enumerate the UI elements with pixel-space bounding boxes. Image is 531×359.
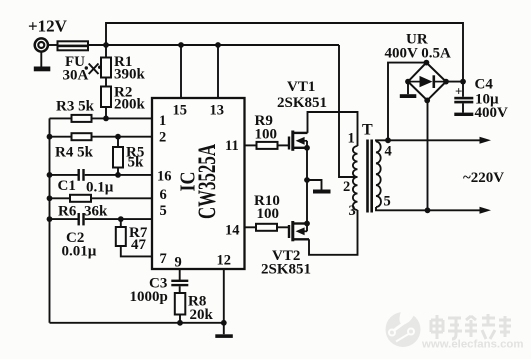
svg-text:2: 2 bbox=[343, 179, 350, 195]
svg-text:11: 11 bbox=[225, 138, 239, 154]
svg-text:36k: 36k bbox=[84, 204, 108, 220]
transistor VT1 2SK851 bbox=[289, 131, 308, 151]
svg-text:390k: 390k bbox=[114, 67, 146, 83]
wire R3 to pin1 bbox=[92, 117, 153, 119]
svg-text:100: 100 bbox=[257, 206, 280, 222]
wire pin13 drop bbox=[217, 45, 219, 98]
svg-text:2SK851: 2SK851 bbox=[261, 262, 311, 278]
selected-value mark (asterisk) bbox=[85, 64, 102, 75]
resistor R2 200k bbox=[101, 87, 111, 119]
resistor R7 47 bbox=[116, 219, 152, 256]
wire pin1 line bbox=[50, 117, 72, 119]
node pin4/bridge branch bbox=[385, 137, 391, 143]
wire pin5 line right part bbox=[85, 218, 152, 220]
svg-text:200k: 200k bbox=[114, 97, 146, 113]
wire R4 to pin2 bbox=[92, 136, 153, 138]
wire secondary pin5 output line bbox=[376, 207, 482, 210]
svg-text:13: 13 bbox=[210, 103, 225, 119]
wire pin11 to R9 bbox=[245, 144, 257, 146]
wire pin16 line left part bbox=[50, 174, 79, 176]
svg-text:C4: C4 bbox=[475, 77, 494, 93]
node bridge/C4/top-rail bbox=[460, 79, 466, 85]
wire pin5 line left part bbox=[50, 218, 79, 220]
watermark chinese text bbox=[431, 314, 511, 339]
svg-text:R3 5k: R3 5k bbox=[56, 99, 95, 115]
svg-text:5k: 5k bbox=[128, 155, 145, 171]
svg-text:2: 2 bbox=[159, 130, 166, 146]
svg-text:+: + bbox=[455, 84, 462, 99]
node pin2/R5 bbox=[115, 134, 121, 140]
node R8/bottom rail bbox=[177, 320, 183, 326]
wire R10 to VT2 gate bbox=[277, 226, 289, 228]
svg-text:12: 12 bbox=[217, 253, 232, 269]
svg-text:16: 16 bbox=[157, 169, 172, 185]
capacitor C2 0.01u bbox=[78, 213, 85, 225]
transistor VT2 2SK851 bbox=[289, 221, 309, 241]
ground under input terminal bbox=[34, 52, 51, 71]
terminal J1 +12V input bbox=[35, 38, 48, 51]
wire VT2 drain to transformer pin3 bbox=[309, 210, 358, 255]
capacitor C4 10u 400V electrolytic bbox=[454, 82, 473, 116]
wire bridge right corner to C4 node bbox=[446, 81, 463, 83]
node pin5/R7 bbox=[118, 216, 124, 222]
resistor R9 100 bbox=[257, 142, 278, 149]
resistor R4 5k bbox=[72, 133, 92, 140]
svg-text:C1: C1 bbox=[58, 178, 76, 194]
svg-text:www.elecfans.com: www.elecfans.com bbox=[421, 339, 524, 351]
svg-text:4: 4 bbox=[385, 144, 392, 160]
wire left bus vertical bbox=[49, 118, 51, 322]
capacitor C3 1000p bbox=[171, 280, 188, 293]
wire pin6 line bbox=[50, 197, 71, 199]
svg-text:400V: 400V bbox=[475, 105, 509, 121]
ground between VT1 and VT2 bbox=[307, 180, 331, 194]
svg-text:2SK851: 2SK851 bbox=[277, 95, 327, 111]
svg-text:R4 5k: R4 5k bbox=[55, 145, 94, 161]
resistor R3 5k bbox=[72, 115, 92, 122]
wire bridge AC1 branch bbox=[388, 63, 426, 141]
svg-text:20k: 20k bbox=[190, 307, 214, 323]
node pin5/bridge branch bbox=[425, 207, 431, 213]
svg-text:15: 15 bbox=[173, 103, 188, 119]
svg-text:9: 9 bbox=[175, 255, 182, 271]
node bridge left corner bbox=[405, 79, 411, 85]
watermark logo circle bbox=[386, 299, 421, 347]
node bus/pin16 bbox=[47, 172, 53, 178]
node junction rail/pin15 bbox=[178, 42, 184, 48]
svg-text:5: 5 bbox=[160, 203, 167, 219]
node bus/pin6 bbox=[47, 195, 53, 201]
wire pin9 drop bbox=[179, 269, 181, 280]
node bridge bottom corner bbox=[424, 98, 430, 104]
bridge rectifier UR diamond bbox=[408, 63, 446, 101]
node bus/pin2 bbox=[47, 134, 53, 140]
svg-text:5: 5 bbox=[384, 194, 391, 210]
ground at bridge left corner bbox=[400, 82, 417, 98]
wire pin2 line bbox=[50, 136, 72, 138]
transformer secondary winding bbox=[376, 142, 381, 208]
svg-text:3: 3 bbox=[349, 203, 356, 219]
wire bridge AC2 branch bbox=[427, 100, 429, 210]
svg-text:30A: 30A bbox=[63, 68, 89, 84]
wire pin16 line right part bbox=[85, 174, 152, 176]
wire center tap from rail bbox=[339, 45, 358, 177]
resistor R10 100 bbox=[256, 224, 277, 231]
svg-text:1: 1 bbox=[159, 113, 166, 129]
arrow pin4 output bbox=[480, 137, 492, 144]
svg-text:R6: R6 bbox=[58, 204, 77, 220]
svg-text:400V 0.5A: 400V 0.5A bbox=[385, 46, 452, 62]
svg-text:7: 7 bbox=[160, 251, 167, 267]
node VT1 source bbox=[304, 145, 310, 151]
svg-text:CW3525A: CW3525A bbox=[194, 144, 221, 219]
diode inside bridge bbox=[409, 75, 445, 88]
wire pin12 drop bbox=[223, 269, 225, 334]
ground at pin12 bbox=[215, 334, 233, 338]
svg-text:1000p: 1000p bbox=[130, 289, 168, 305]
svg-text:0.01µ: 0.01µ bbox=[62, 244, 97, 260]
svg-text:+12V: +12V bbox=[28, 17, 68, 36]
wire secondary pin4 output line bbox=[376, 140, 482, 141]
wire bottom rail bbox=[50, 322, 224, 324]
node bridge right corner bbox=[443, 79, 449, 85]
resistor R1 390k bbox=[101, 45, 111, 78]
transformer T primary winding bbox=[353, 146, 358, 210]
svg-text:6: 6 bbox=[160, 187, 167, 203]
node VT2 source junction bbox=[304, 221, 310, 227]
transformer core bbox=[368, 140, 372, 213]
capacitor C1 0.1u bbox=[78, 169, 85, 181]
wire R9 to VT1 gate bbox=[278, 144, 290, 146]
op-amp-IC U1 CW3525A box bbox=[152, 98, 245, 269]
resistor R8 20k bbox=[175, 293, 186, 323]
node bus/pin5 bbox=[47, 216, 53, 222]
fuse FU 30A bbox=[58, 41, 89, 50]
svg-text:T: T bbox=[362, 122, 373, 139]
resistor R6 36k bbox=[70, 195, 91, 202]
svg-text:47: 47 bbox=[131, 237, 147, 253]
wire VT1 drain to transformer pin1 bbox=[308, 112, 358, 146]
svg-text:100: 100 bbox=[255, 127, 278, 143]
node pin16/R5 bbox=[115, 172, 121, 178]
svg-text:1: 1 bbox=[348, 131, 355, 147]
wire pin14 to R10 bbox=[245, 226, 257, 228]
wire pin15 drop bbox=[180, 45, 182, 98]
node bridge top corner bbox=[424, 60, 430, 66]
node junction rail/pin13 bbox=[215, 42, 221, 48]
wire fuse to center-tap drop bbox=[88, 44, 339, 46]
wire common source vertical bbox=[306, 141, 308, 224]
wire R1-R2 bbox=[105, 78, 107, 87]
wire terminal to fuse bbox=[48, 44, 58, 46]
svg-text:~220V: ~220V bbox=[463, 170, 504, 186]
svg-text:0.1µ: 0.1µ bbox=[86, 180, 114, 196]
svg-text:14: 14 bbox=[225, 223, 240, 239]
node R2/pin1 junction bbox=[103, 116, 109, 122]
arrow pin5 output bbox=[480, 207, 492, 214]
node pin12/bottom rail bbox=[221, 320, 227, 326]
resistor R5 5k bbox=[113, 137, 123, 175]
wire R6 to pin6 bbox=[91, 197, 152, 199]
node junction fuse/R1/top-rail bbox=[103, 42, 109, 48]
svg-text:VT1: VT1 bbox=[287, 79, 315, 95]
wire +12V top rail bbox=[106, 23, 463, 82]
node source/ground tap bbox=[304, 177, 310, 183]
